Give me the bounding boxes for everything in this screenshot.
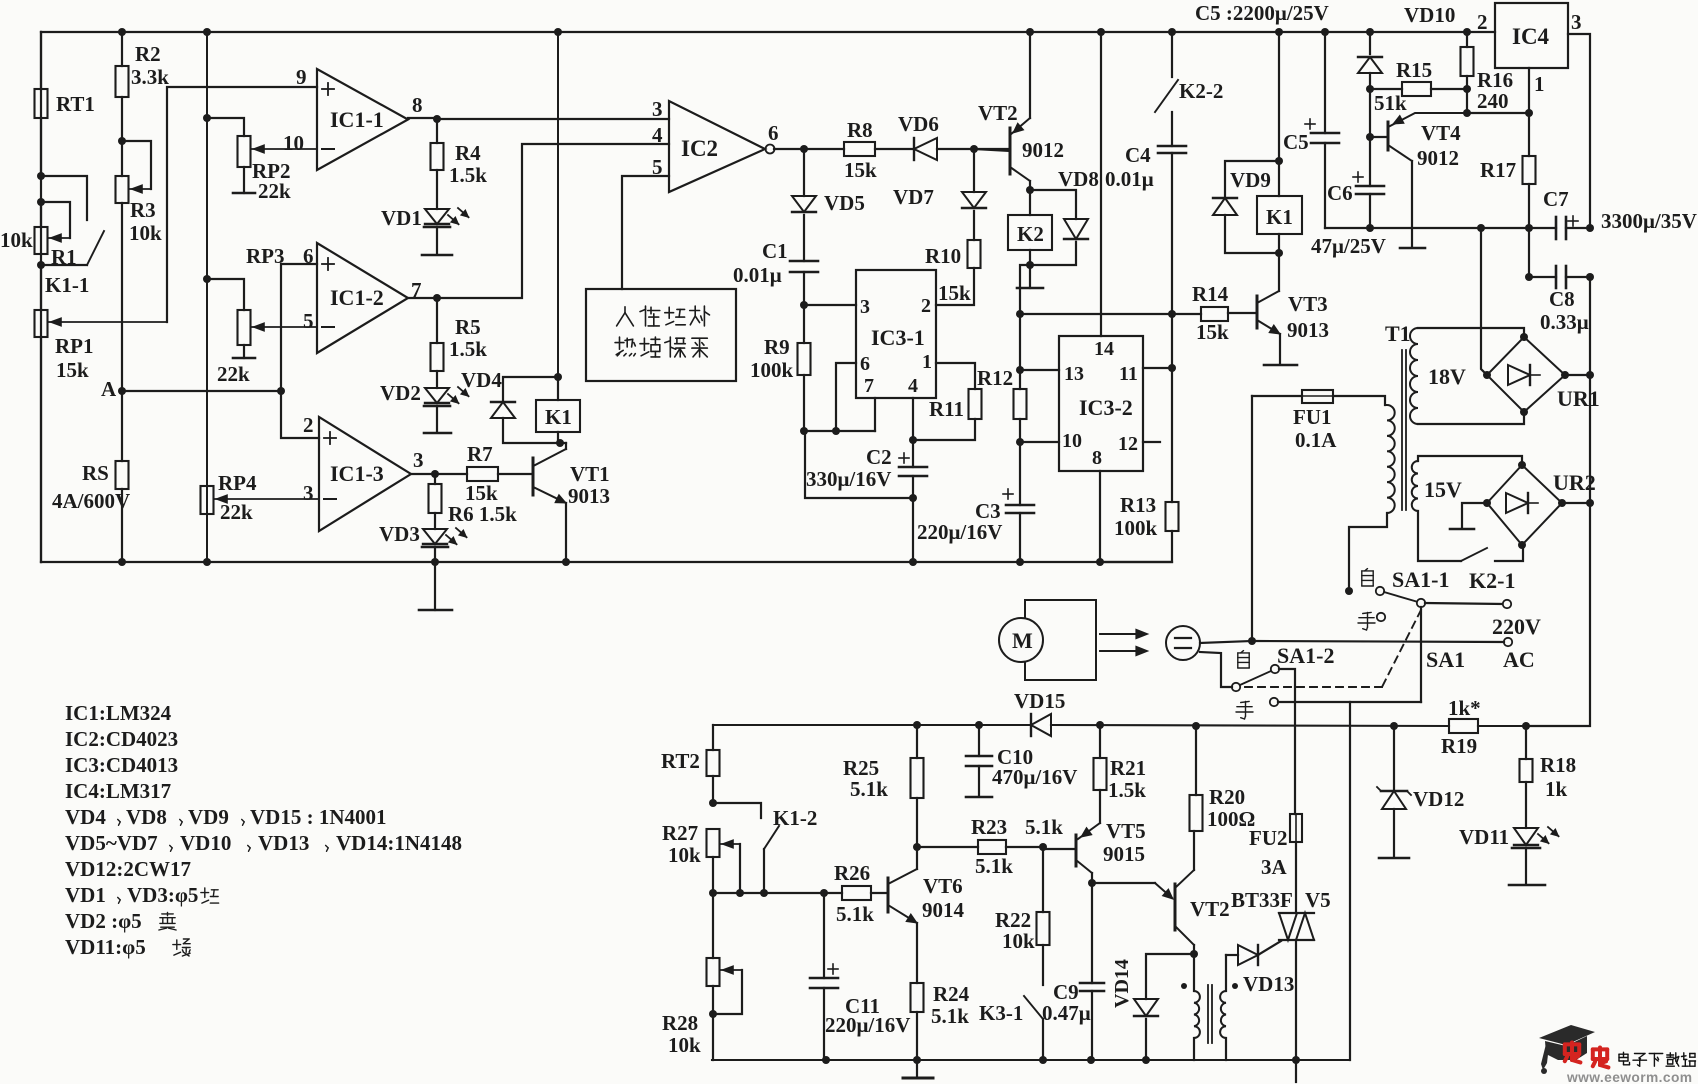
svg-text:R3: R3 <box>130 198 156 222</box>
wire pin4 down <box>909 398 917 444</box>
LED VD3 <box>422 528 467 562</box>
label 15k (RP1) <box>56 358 89 382</box>
svg-text:VD13: VD13 <box>1243 972 1294 996</box>
relay coil K1 (supply) <box>1257 196 1302 234</box>
node dot IC3-1 pin3 <box>800 301 808 309</box>
potentiometer RP4 <box>201 486 214 514</box>
label 0.01u (C1) <box>733 263 782 287</box>
label 3A <box>1261 855 1288 879</box>
label C5 :2200u/25V <box>1195 1 1329 25</box>
label VD8 <box>1058 167 1099 191</box>
diode VD9 <box>1213 161 1279 253</box>
wire left rail <box>40 32 42 562</box>
svg-text:VD14: VD14 <box>1111 959 1133 1008</box>
svg-text:14: 14 <box>1094 338 1114 360</box>
label 5.1k (R23 lower) <box>975 854 1013 878</box>
svg-text:3: 3 <box>860 296 870 318</box>
svg-text:9013: 9013 <box>1287 318 1329 342</box>
svg-text:0.1A: 0.1A <box>1295 428 1337 452</box>
svg-text:4A/600V: 4A/600V <box>52 489 130 513</box>
label sensor line2 <box>615 337 707 357</box>
label VT4 <box>1421 121 1461 145</box>
label VT3 <box>1288 292 1328 316</box>
switch K3-1 <box>1024 996 1043 1060</box>
svg-text:100k: 100k <box>750 358 794 382</box>
label VD2 <box>380 381 421 405</box>
label 5.1k (R23 upper) <box>1025 815 1063 839</box>
wire reference rail x207 <box>206 32 208 562</box>
label 9012 (VT2) <box>1022 138 1064 162</box>
label K1-2 <box>773 806 817 830</box>
pin 7 label <box>411 278 422 302</box>
label FU2 <box>1249 826 1288 850</box>
transistor VT2 (9012) <box>974 32 1030 190</box>
label R19 <box>1441 734 1477 758</box>
label VT2 (BT33F) <box>1190 897 1230 921</box>
pin 13 label <box>1064 363 1084 385</box>
resistor R26 <box>842 886 888 900</box>
svg-text:9014: 9014 <box>922 898 965 922</box>
svg-text:3: 3 <box>303 481 314 505</box>
svg-text:UR1: UR1 <box>1557 386 1600 411</box>
fuse FU2 <box>1290 814 1302 842</box>
svg-text:K1-1: K1-1 <box>45 273 89 297</box>
resistor R18 <box>1520 726 1533 828</box>
wire pin10 feed <box>1020 441 1059 443</box>
wiper RP3 to pin 5 <box>252 323 317 331</box>
ground tap UR2 left <box>1450 503 1487 529</box>
svg-text:5: 5 <box>303 309 314 333</box>
label RP4 <box>218 471 257 495</box>
svg-text:18V: 18V <box>1428 364 1466 389</box>
diode VD8 <box>1030 190 1088 265</box>
label VT1 <box>570 462 610 486</box>
diode VD10 <box>1358 32 1382 89</box>
node dots base line y893 <box>709 889 828 897</box>
node dot UJT B1 <box>1190 950 1198 958</box>
svg-text:R7: R7 <box>467 442 493 466</box>
svg-text:VD11: VD11 <box>1459 825 1509 849</box>
label IC2 <box>681 136 718 161</box>
potentiometer R1 <box>35 202 48 254</box>
label C11 <box>845 994 880 1018</box>
svg-text:9012: 9012 <box>1022 138 1064 162</box>
svg-text:IC2:CD4023: IC2:CD4023 <box>65 727 178 751</box>
pin 8 label <box>412 93 423 117</box>
wire K2 bottom to R12 chain <box>1020 265 1030 389</box>
pin 3 output label <box>413 448 424 472</box>
svg-text:R11: R11 <box>929 397 964 421</box>
node dot R1 bottom <box>37 261 45 269</box>
pin 12 label <box>1118 433 1138 455</box>
watermark site name <box>1619 1052 1696 1066</box>
svg-text:RT1: RT1 <box>56 92 95 116</box>
node dot x1172 R14 line <box>1168 310 1176 318</box>
svg-text:220μ/16V: 220μ/16V <box>825 1013 910 1037</box>
wire C2 bottom bracket to R9 <box>805 431 913 498</box>
wire IC1-1 output to IC2 pin 3 <box>437 118 669 120</box>
svg-text:3A: 3A <box>1261 855 1288 879</box>
svg-text:VD15: VD15 <box>1014 689 1065 713</box>
resistor R14 <box>1201 307 1228 321</box>
label 5.1k (R25) <box>850 777 888 801</box>
node dot pin10 tap <box>1016 438 1024 446</box>
op-amp IC1-1 <box>317 69 408 170</box>
svg-text:VD5~VD7: VD5~VD7 <box>65 831 158 855</box>
label sensor line1 <box>617 306 710 326</box>
node dot RP3 feed <box>203 275 211 283</box>
node dot VD9 top <box>1275 157 1283 165</box>
svg-text:10k: 10k <box>1002 929 1035 953</box>
wire x558 from top rail to K1 <box>557 32 559 377</box>
label list VD4 VD8 VD9 VD15 1N4001 <box>65 805 387 829</box>
svg-text:R27: R27 <box>662 821 698 845</box>
label VD10 <box>1404 3 1455 27</box>
pin 2 label <box>303 413 314 437</box>
svg-text:A: A <box>101 377 117 401</box>
svg-text:V5: V5 <box>1305 888 1331 912</box>
resistor R7 <box>435 467 533 481</box>
svg-text:3: 3 <box>413 448 424 472</box>
winding dot secondary <box>1232 983 1238 989</box>
label C6 <box>1327 181 1353 205</box>
svg-text:VD8: VD8 <box>1058 167 1099 191</box>
svg-text:R9: R9 <box>764 335 790 359</box>
motor connector <box>1166 626 1200 660</box>
wire IC4 pin1 to R17 <box>1528 68 1530 156</box>
label 10k (R22) <box>1002 929 1035 953</box>
svg-text:VD10: VD10 <box>1404 3 1455 27</box>
capacitor C6 <box>1353 89 1384 228</box>
label 10k (R27) <box>668 843 701 867</box>
wire C2 bottom to rail <box>912 498 914 562</box>
pin 4 label (IC2) <box>652 123 663 147</box>
pin 3 label (IC2) <box>652 97 663 121</box>
wire line to R14 <box>1020 313 1201 315</box>
wiper R27 <box>721 840 740 893</box>
diode VD4 <box>491 377 558 443</box>
svg-text:C3: C3 <box>975 499 1001 523</box>
svg-text:IC3-2: IC3-2 <box>1079 395 1133 420</box>
wire V5 below rail stub <box>1295 1060 1297 1082</box>
pin 5 label (IC2) <box>652 155 663 179</box>
svg-text:220μ/16V: 220μ/16V <box>917 520 1002 544</box>
label 1.5k (R4) <box>449 163 487 187</box>
label R11 <box>929 397 964 421</box>
label 470u/16V <box>992 765 1077 789</box>
wire R13 bottom to rail <box>1100 531 1172 562</box>
wire VT5 collector to UJT emitter <box>1092 882 1155 884</box>
node dot IC1-2 output <box>433 294 441 302</box>
svg-text:6: 6 <box>768 121 779 145</box>
svg-text:220V: 220V <box>1492 614 1541 639</box>
label 4A/600V <box>52 489 130 513</box>
svg-text:1k*: 1k* <box>1448 696 1481 720</box>
svg-text:C2: C2 <box>866 445 892 469</box>
label 220u/16V (C3) <box>917 520 1002 544</box>
wire pin 6 to node A branch <box>281 264 317 391</box>
resistor R24 <box>911 983 924 1060</box>
svg-text:7: 7 <box>864 375 874 397</box>
svg-text:1k: 1k <box>1545 777 1568 801</box>
unijunction VT2 BT33F <box>1155 831 1194 954</box>
node dot RP2 feed <box>203 114 211 122</box>
label V5 <box>1305 888 1331 912</box>
wire SA1-2 auto to FU2 <box>1279 669 1295 814</box>
arrow motor feed 2 <box>1100 646 1148 656</box>
capacitor C11 <box>810 893 838 1060</box>
svg-text:R2: R2 <box>135 42 161 66</box>
svg-text:SA1: SA1 <box>1426 647 1465 672</box>
svg-text:10k: 10k <box>668 1033 701 1057</box>
svg-text:VD9: VD9 <box>1230 168 1271 192</box>
switch K2-2 <box>1155 32 1178 146</box>
potentiometer RP2 <box>207 118 255 193</box>
zener VD12 <box>1377 726 1411 858</box>
pin 1 label (IC3-1) <box>922 351 932 373</box>
node dot pin13 tap <box>1016 366 1024 374</box>
wire IC2 output <box>774 148 844 150</box>
svg-text:240: 240 <box>1477 89 1509 113</box>
label C10 <box>997 745 1033 769</box>
wire UR2 right vertex to DC bus <box>1526 499 1594 726</box>
label list VD12:2CW17 <box>65 857 191 881</box>
label R20 <box>1209 785 1245 809</box>
label 15k (R10) <box>938 281 971 305</box>
node dot K2 top <box>1026 186 1034 194</box>
label C4 <box>1125 143 1151 167</box>
label R28 <box>662 1011 698 1035</box>
ground below R24 <box>903 1060 933 1078</box>
wire oscillator return riser x1350 <box>1349 702 1351 1060</box>
IC3-1 box <box>856 270 936 398</box>
wire IC1-2 output <box>408 297 437 299</box>
wiper arrow RP1 to IC1-1 pin 9 <box>49 87 317 326</box>
label 0.33u <box>1540 310 1589 334</box>
pin 9 label <box>296 65 307 89</box>
node dot VT6 collector <box>913 843 921 851</box>
arrow motor feed 1 <box>1100 629 1148 639</box>
svg-text:10k: 10k <box>668 843 701 867</box>
svg-text:BT33F: BT33F <box>1231 888 1293 912</box>
label R14 <box>1192 282 1229 306</box>
svg-text:IC1-3: IC1-3 <box>330 461 384 486</box>
relay coil K1 <box>536 400 580 432</box>
svg-text:RP4: RP4 <box>218 471 257 495</box>
label 18V <box>1428 364 1466 389</box>
svg-text:1.5k: 1.5k <box>449 163 487 187</box>
mechanical link SA1 dashed <box>1240 610 1421 687</box>
svg-text:22k: 22k <box>217 362 250 386</box>
svg-text:UR2: UR2 <box>1553 470 1596 495</box>
label UR2 <box>1553 470 1596 495</box>
label RP1 <box>55 334 94 358</box>
svg-text:VD1: VD1 <box>65 883 106 907</box>
svg-text:R28: R28 <box>662 1011 698 1035</box>
LED VD2 <box>424 387 469 433</box>
svg-text:VT5: VT5 <box>1106 819 1146 843</box>
svg-text:R5: R5 <box>455 315 481 339</box>
label RT1 <box>56 92 95 116</box>
node dots y228 <box>1366 224 1533 232</box>
pulse transformer secondary <box>1220 955 1226 1060</box>
capacitor C7 <box>1529 216 1594 239</box>
label C2 <box>866 445 892 469</box>
label 15k (R7) <box>465 481 498 505</box>
label R7 <box>467 442 493 466</box>
label R1 <box>51 245 77 269</box>
svg-text:100k: 100k <box>1114 516 1158 540</box>
label 330u/16V <box>806 467 891 491</box>
capacitor C9 <box>1080 883 1104 1060</box>
label 1k (R18) <box>1545 777 1568 801</box>
svg-text:4: 4 <box>652 123 663 147</box>
svg-text:C4: C4 <box>1125 143 1151 167</box>
wire top supply rail <box>41 31 1495 33</box>
diode VD7 <box>962 149 986 240</box>
svg-text:330μ/16V: 330μ/16V <box>806 467 891 491</box>
label R21 <box>1110 756 1146 780</box>
label list IC2:CD4023 <box>65 727 178 751</box>
wire SA1-2 manual line <box>1278 701 1421 703</box>
node dot R9 bottom <box>800 427 808 435</box>
transistor VT3 (9013) <box>1228 291 1297 365</box>
label R2 <box>135 42 161 66</box>
svg-text:C6: C6 <box>1327 181 1353 205</box>
potentiometer R27 <box>707 829 720 893</box>
svg-text:5.1k: 5.1k <box>850 777 888 801</box>
wire pin12 stub <box>1143 441 1160 443</box>
wire bottom supply rail y725 <box>713 725 1586 726</box>
svg-text:R12: R12 <box>977 366 1013 390</box>
label R15 <box>1396 58 1432 82</box>
IC4 box <box>1495 3 1568 68</box>
label VD14 vertical <box>1111 959 1133 1008</box>
label VD1 <box>381 206 422 230</box>
svg-text:470μ/16V: 470μ/16V <box>992 765 1077 789</box>
label C7 <box>1543 187 1569 211</box>
op-amp IC1-2 <box>317 243 408 353</box>
svg-text:SA1-1: SA1-1 <box>1392 567 1449 592</box>
wire pin11 to x1172 <box>1143 367 1172 369</box>
switch K2-1 <box>1461 545 1523 561</box>
pin 11 label <box>1119 363 1138 385</box>
node dot R23 right <box>1039 843 1047 851</box>
diode VD5 <box>792 149 816 261</box>
label list IC1:LM324 <box>65 701 172 725</box>
label IC1-1 <box>330 107 384 132</box>
svg-text:8: 8 <box>412 93 423 117</box>
label 15k (R8) <box>844 158 877 182</box>
svg-text:15k: 15k <box>56 358 89 382</box>
svg-text:R8: R8 <box>847 118 873 142</box>
svg-text:IC4:LM317: IC4:LM317 <box>65 779 171 803</box>
label C1 <box>762 239 788 263</box>
svg-text:VT2: VT2 <box>978 101 1018 125</box>
wire UR1 right vertex to DC bus <box>1565 277 1594 503</box>
svg-text:R23: R23 <box>971 815 1007 839</box>
svg-text:VD4: VD4 <box>461 368 502 392</box>
pin 3 label (IC3-1) <box>860 296 870 318</box>
diode VD15 <box>1031 714 1051 736</box>
wiper RP4 to pin 3 <box>215 495 319 503</box>
label VD13 <box>1243 972 1294 996</box>
resistor R13 <box>1166 502 1179 531</box>
svg-text:VD12:2CW17: VD12:2CW17 <box>65 857 191 881</box>
svg-text:13: 13 <box>1064 363 1084 385</box>
resistor R12 <box>1014 389 1027 442</box>
svg-text:51k: 51k <box>1374 91 1407 115</box>
wire IC1-2 output to IC2 pin 4 <box>437 144 669 298</box>
svg-text:RP1: RP1 <box>55 334 94 358</box>
wire K1 top <box>554 373 562 400</box>
svg-text:15V: 15V <box>1424 477 1462 502</box>
label R10 <box>925 244 961 268</box>
svg-text:11: 11 <box>1119 363 1138 385</box>
label SA1-1 <box>1392 567 1449 592</box>
capacitor C1 <box>790 261 818 305</box>
watermark cap logo <box>1539 1025 1595 1074</box>
label R27 <box>662 821 698 845</box>
resistor R16 <box>1461 32 1474 89</box>
svg-text:VT1: VT1 <box>570 462 610 486</box>
label VT6 <box>923 874 963 898</box>
switch K1-1 <box>41 231 104 265</box>
svg-text:C7: C7 <box>1543 187 1569 211</box>
resistor R23 <box>917 840 1043 854</box>
pin 7 label (IC3-1) <box>864 375 874 397</box>
svg-text:5.1k: 5.1k <box>931 1004 969 1028</box>
svg-text:VD2: VD2 <box>380 381 421 405</box>
svg-text:AC: AC <box>1503 647 1535 672</box>
label R26 <box>834 861 870 885</box>
svg-text:9: 9 <box>296 65 307 89</box>
label R23 <box>971 815 1007 839</box>
label 22k (RP4) <box>220 500 253 524</box>
label 5.1k (R24) <box>931 1004 969 1028</box>
svg-text:R10: R10 <box>925 244 961 268</box>
svg-text:10: 10 <box>283 131 304 155</box>
T1 core <box>1402 350 1406 510</box>
svg-text:R17: R17 <box>1480 158 1516 182</box>
node dots on bottom rail <box>118 558 1104 566</box>
label R22 <box>995 908 1031 932</box>
svg-text:VD10: VD10 <box>180 831 231 855</box>
relay coil K2 <box>1008 190 1052 250</box>
op-amp IC1-3 <box>319 417 411 531</box>
label R16 <box>1477 68 1513 92</box>
svg-text:VD1: VD1 <box>381 206 422 230</box>
wire pin13 feed <box>1020 369 1059 371</box>
wire R3 rheostat tie <box>122 141 151 193</box>
node dot R2 bottom <box>118 137 126 145</box>
svg-text:VD14:1N4148: VD14:1N4148 <box>336 831 462 855</box>
label VD4 <box>461 368 502 392</box>
wire IC1-1 output <box>408 117 437 119</box>
wire SA1-2 common to connector <box>1200 652 1232 687</box>
label 100ohm <box>1207 807 1255 831</box>
node dot R14 line tap <box>1016 310 1024 318</box>
svg-text:VD13: VD13 <box>258 831 309 855</box>
svg-text:IC2: IC2 <box>681 136 718 161</box>
pulse transformer primary <box>1194 954 1200 1060</box>
node dot x1172 pin11 <box>1168 364 1176 372</box>
label 240 <box>1477 89 1509 113</box>
svg-text:1: 1 <box>922 351 932 373</box>
label zi (SA1-2 auto) <box>1238 651 1249 668</box>
transistor VT1 <box>533 449 566 503</box>
label R4 <box>455 141 481 165</box>
